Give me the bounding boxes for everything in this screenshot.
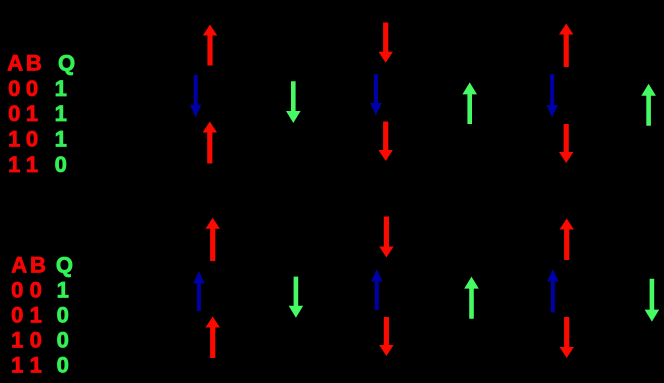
svg-text:1: 1 xyxy=(30,352,42,377)
svg-text:0: 0 xyxy=(11,277,23,302)
B2 free-layer arrow (up) xyxy=(371,269,383,310)
svg-text:A: A xyxy=(11,252,27,277)
NAND truth table row 11 -> 0 xyxy=(8,152,67,177)
svg-text:0: 0 xyxy=(57,327,69,352)
svg-text:1: 1 xyxy=(11,327,23,352)
svg-text:0: 0 xyxy=(11,302,23,327)
NOR truth table row 01 -> 0 xyxy=(11,302,69,327)
svg-text:1: 1 xyxy=(8,127,20,152)
svg-text:1: 1 xyxy=(26,152,38,177)
svg-text:1: 1 xyxy=(55,127,67,152)
svg-text:1: 1 xyxy=(8,152,20,177)
B1 free-layer arrow (up) xyxy=(193,271,205,311)
B3 input A arrow (up) xyxy=(560,219,574,261)
svg-text:1: 1 xyxy=(30,302,42,327)
NOR truth table header A B Q xyxy=(11,252,73,277)
svg-text:0: 0 xyxy=(26,76,38,101)
NOR truth table row 10 -> 0 xyxy=(11,327,69,352)
svg-text:1: 1 xyxy=(55,101,67,126)
svg-text:0: 0 xyxy=(8,76,20,101)
B3 output Q arrow (down) xyxy=(645,279,660,322)
B1 input A arrow (up) xyxy=(206,218,220,261)
T1 free-layer arrow (down) xyxy=(190,75,202,117)
svg-text:A: A xyxy=(7,50,23,75)
T3 free-layer arrow (down) xyxy=(547,74,559,118)
svg-text:1: 1 xyxy=(11,352,23,377)
B2 input A arrow (down) xyxy=(379,217,393,258)
T2 output Q arrow (up) xyxy=(462,82,477,124)
T3 output Q arrow (up) xyxy=(641,84,656,126)
B3 input B arrow (down) xyxy=(560,317,574,358)
B2 output Q arrow (up) xyxy=(464,277,479,319)
T2 input B arrow (down) xyxy=(379,122,393,162)
svg-text:0: 0 xyxy=(55,152,67,177)
NAND truth table row 01 -> 1 xyxy=(8,101,67,126)
svg-text:1: 1 xyxy=(55,76,67,101)
B2 input B arrow (down) xyxy=(379,317,393,356)
svg-text:Q: Q xyxy=(56,252,73,277)
svg-text:B: B xyxy=(30,252,46,277)
svg-text:0: 0 xyxy=(26,127,38,152)
T1 output Q arrow (down) xyxy=(286,81,301,123)
T3 input B arrow (down) xyxy=(559,124,573,163)
NOR truth table row 00 -> 1 xyxy=(11,277,69,302)
NAND truth table header A B Q xyxy=(7,50,75,75)
svg-text:B: B xyxy=(26,50,42,75)
svg-text:0: 0 xyxy=(57,352,69,377)
svg-text:1: 1 xyxy=(26,101,38,126)
svg-text:0: 0 xyxy=(30,277,42,302)
svg-text:Q: Q xyxy=(58,50,75,75)
NAND truth table row 10 -> 1 xyxy=(8,127,67,152)
B1 input B arrow (up) xyxy=(206,317,220,359)
svg-text:0: 0 xyxy=(57,302,69,327)
B1 output Q arrow (down) xyxy=(289,277,304,318)
svg-text:0: 0 xyxy=(30,327,42,352)
T3 input A arrow (up) xyxy=(559,24,573,68)
T2 free-layer arrow (down) xyxy=(370,74,382,116)
T2 input A arrow (down) xyxy=(379,23,393,63)
T1 input A arrow (up) xyxy=(203,25,217,66)
NOR truth table row 11 -> 0 xyxy=(11,352,69,377)
B3 free-layer arrow (up) xyxy=(547,269,559,313)
svg-text:0: 0 xyxy=(8,101,20,126)
svg-text:1: 1 xyxy=(57,277,69,302)
T1 input B arrow (up) xyxy=(203,122,217,164)
NAND truth table row 00 -> 1 xyxy=(8,76,67,101)
